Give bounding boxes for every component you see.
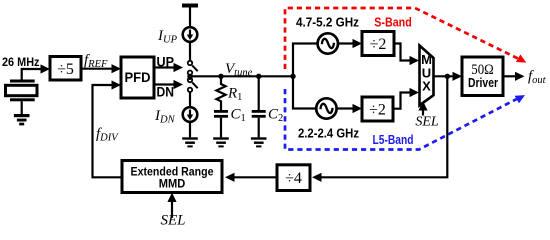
- svg-text:L5-Band: L5-Band: [373, 132, 414, 147]
- svg-text:X: X: [422, 79, 431, 94]
- oscillator VCO1: [318, 33, 338, 53]
- node R1 branch: [218, 74, 223, 79]
- node feedback tap: [445, 74, 450, 79]
- divider U3 ÷2 (top): [362, 32, 394, 56]
- divider U2 ÷5: [50, 57, 81, 81]
- divider U4 ÷2 (bottom): [362, 97, 393, 121]
- crystal X1: [6, 80, 38, 115]
- svg-text:÷5: ÷5: [57, 61, 74, 78]
- multiplexer MUX: [420, 46, 434, 106]
- PFD U1: [121, 57, 154, 98]
- node C2 branch: [256, 74, 261, 79]
- wire SEL to MMD: [171, 198, 173, 218]
- capacitor C1: [214, 111, 228, 137]
- ground (crystal): [14, 114, 30, 125]
- svg-text:÷2: ÷2: [370, 36, 387, 53]
- svg-text:÷2: ÷2: [369, 102, 386, 119]
- wire feedback: [318, 76, 447, 177]
- wire MUX output: [434, 75, 458, 77]
- svg-text:fDIV: fDIV: [96, 126, 119, 144]
- current source I_DN: [183, 107, 198, 122]
- wire divider to MUX input B: [393, 93, 412, 109]
- svg-text:SEL: SEL: [415, 115, 439, 130]
- svg-text:C2: C2: [268, 107, 283, 125]
- svg-text:DN: DN: [157, 85, 175, 100]
- svg-text:PFD: PFD: [125, 69, 151, 85]
- svg-text:Extended Range: Extended Range: [131, 167, 214, 179]
- svg-text:SEL: SEL: [160, 213, 185, 228]
- capacitor C2: [252, 76, 266, 137]
- wire V_tune: [190, 75, 293, 77]
- S-band boundary (red dashed): [285, 8, 526, 69]
- wire VCO2 to divider: [337, 107, 356, 109]
- wire f_DIV: [93, 85, 123, 177]
- svg-text:IDN: IDN: [154, 108, 176, 126]
- wire crystal to divider: [22, 69, 44, 80]
- svg-text:fout: fout: [528, 69, 547, 87]
- node charge-pump output: [189, 75, 191, 80]
- svg-text:Driver: Driver: [468, 76, 498, 90]
- wire f_REF: [81, 68, 115, 70]
- supply rail: [182, 4, 198, 8]
- wire I_DN to ground: [189, 122, 191, 138]
- svg-text:÷4: ÷4: [285, 170, 302, 187]
- svg-text:2.2-2.4 GHz: 2.2-2.4 GHz: [298, 126, 359, 141]
- L5-band boundary (blue dashed): [285, 89, 525, 150]
- svg-text:C1: C1: [231, 107, 246, 125]
- svg-text:S-Band: S-Band: [374, 15, 412, 30]
- driver U5 50ohm: [462, 57, 503, 96]
- switch S_DN: [188, 78, 198, 92]
- svg-text:Vtune: Vtune: [225, 61, 253, 79]
- divider U6 ÷4: [277, 165, 310, 191]
- ground (I_DN): [182, 137, 198, 147]
- switch S_UP: [188, 61, 198, 75]
- ground (C1): [213, 137, 229, 147]
- svg-text:26 MHz: 26 MHz: [2, 55, 40, 69]
- ground (C2): [251, 137, 267, 147]
- oscillator VCO2: [316, 98, 336, 118]
- node VCO branch: [290, 74, 295, 79]
- wire DN output: [154, 83, 177, 85]
- wire to VCO2 (bottom): [293, 76, 316, 108]
- svg-text:4.7-5.2 GHz: 4.7-5.2 GHz: [296, 15, 359, 30]
- svg-text:IUP: IUP: [157, 28, 178, 46]
- current source I_UP: [183, 27, 198, 42]
- wire switch to I_DN: [189, 92, 191, 107]
- wire f_out: [503, 75, 518, 77]
- svg-text:R1: R1: [227, 86, 242, 104]
- MMD block: [122, 161, 222, 193]
- resistor R1: [216, 76, 225, 110]
- svg-text:fREF: fREF: [84, 53, 108, 71]
- wire I_UP to switch: [189, 42, 191, 61]
- wire ÷4 to MMD: [231, 176, 277, 178]
- wire VCO1 to divider: [338, 42, 356, 44]
- wire to VCO1 (top): [293, 44, 317, 77]
- wire supply to I_UP: [189, 8, 191, 28]
- wire UP output: [154, 66, 177, 68]
- wire divider to MUX input A: [394, 44, 412, 61]
- wire SEL to MUX: [422, 107, 424, 116]
- svg-text:MMD: MMD: [159, 179, 186, 191]
